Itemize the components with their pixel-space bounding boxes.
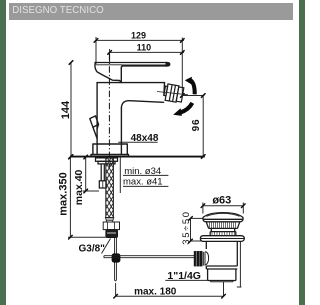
svg-text:96: 96 (191, 119, 202, 132)
svg-text:129: 129 (131, 31, 146, 41)
svg-text:max. ø41: max. ø41 (123, 177, 163, 188)
svg-text:110: 110 (137, 42, 152, 52)
svg-text:ø63: ø63 (212, 195, 231, 207)
svg-text:max.350: max.350 (58, 172, 70, 215)
svg-text:144: 144 (60, 100, 72, 119)
svg-text:1"1/4G: 1"1/4G (167, 270, 201, 282)
svg-text:min. ø34: min. ø34 (124, 166, 161, 177)
svg-text:max. 180: max. 180 (134, 286, 177, 297)
svg-text:48x48: 48x48 (131, 133, 159, 144)
svg-text:35÷50: 35÷50 (181, 210, 192, 244)
svg-text:max.40: max.40 (73, 169, 85, 205)
svg-text:G3/8": G3/8" (79, 243, 106, 254)
